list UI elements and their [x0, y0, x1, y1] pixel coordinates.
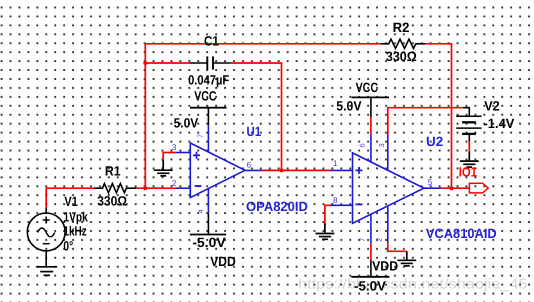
svg-text:-5.0V: -5.0V — [354, 279, 386, 294]
VDD supply U2 — [351, 260, 389, 277]
wire V1 top to R1 — [46, 188, 94, 208]
wire U2 pin7 to VDD2 — [370, 243, 372, 260]
svg-text:R2: R2 — [393, 20, 410, 35]
wire U2 pin3 to V2 battery — [388, 108, 463, 135]
node A junction dot — [143, 186, 147, 190]
svg-text:-5.0V: -5.0V — [192, 235, 225, 250]
svg-text:VDD: VDD — [210, 254, 236, 269]
op-amp U1 — [176, 125, 262, 213]
svg-text:6: 6 — [360, 143, 367, 147]
source V1 — [27, 208, 65, 267]
svg-text:OPA820ID: OPA820ID — [246, 199, 308, 214]
node U1 output junction dot — [280, 168, 284, 172]
wire R2 top line — [145, 43, 381, 45]
svg-text:U2: U2 — [426, 134, 443, 149]
svg-text:7: 7 — [360, 238, 367, 242]
svg-text:V2: V2 — [484, 98, 500, 113]
wire R1 to node A — [136, 187, 176, 189]
svg-text:R1: R1 — [105, 164, 121, 179]
ground at U1 pin3 — [154, 160, 173, 176]
svg-text:VCC: VCC — [194, 89, 217, 104]
svg-text:VDD: VDD — [372, 259, 398, 274]
wire U1 output to U2 plus input — [262, 169, 331, 171]
wire U2 pin2 to ground — [388, 243, 407, 251]
svg-text:2: 2 — [377, 238, 384, 242]
svg-text:-1.4V: -1.4V — [484, 116, 515, 131]
node C1 tap junction dot — [143, 61, 147, 65]
ground below V1 — [36, 267, 57, 276]
svg-text:330Ω: 330Ω — [97, 193, 127, 208]
svg-text:330Ω: 330Ω — [386, 49, 417, 64]
svg-text:0°: 0° — [63, 238, 73, 253]
ground below V2 — [460, 152, 479, 167]
svg-text:VCC: VCC — [356, 80, 379, 95]
battery V2 — [456, 108, 481, 142]
VCC supply U1 — [190, 108, 227, 126]
resistor R1 — [94, 184, 137, 193]
VDD supply U1 — [190, 213, 226, 234]
svg-text:VCA810AID: VCA810AID — [426, 226, 497, 241]
wire to C1 left — [145, 62, 190, 64]
svg-text:3: 3 — [379, 143, 386, 147]
svg-text:1kHz: 1kHz — [63, 224, 86, 239]
capacitor C1 — [190, 56, 231, 69]
svg-text:5.0V: 5.0V — [336, 99, 361, 114]
resistor R2 — [380, 39, 425, 48]
svg-text:2: 2 — [172, 179, 177, 188]
connector IO1 — [469, 183, 488, 193]
svg-text:3: 3 — [172, 143, 177, 152]
wire U2 output to IO1 — [441, 187, 470, 189]
node output junction dot — [450, 186, 454, 190]
wire U2 pin8 to ground — [325, 205, 331, 225]
svg-text:C1: C1 — [204, 34, 219, 49]
ground at U2 pin2 — [397, 251, 416, 266]
svg-text:4: 4 — [198, 209, 205, 213]
wire U1 pin3 to ground — [163, 153, 176, 161]
svg-text:U1: U1 — [247, 124, 262, 139]
op-amp U2 — [331, 135, 441, 244]
svg-text:1Vpk: 1Vpk — [63, 209, 88, 224]
wire feedback vertical — [144, 44, 146, 188]
wire VCC2 to U2 pin6 — [370, 117, 372, 135]
svg-text:V1: V1 — [64, 194, 78, 209]
svg-text:5.0V: 5.0V — [174, 116, 199, 131]
wire R2 right down to output node — [425, 44, 451, 188]
svg-text:IO1: IO1 — [459, 165, 478, 180]
VCC supply U2 — [352, 97, 390, 117]
svg-text:1: 1 — [333, 159, 338, 168]
svg-text:0.047µF: 0.047µF — [188, 73, 229, 88]
ground at U2 pin8 — [316, 224, 335, 240]
wire V2 bottom to ground — [468, 141, 470, 152]
svg-text:5: 5 — [428, 178, 433, 187]
wire C1 right down to U1 output — [231, 63, 282, 170]
svg-text:6: 6 — [247, 161, 252, 170]
svg-text:7: 7 — [197, 134, 204, 138]
svg-text:8: 8 — [333, 196, 338, 205]
